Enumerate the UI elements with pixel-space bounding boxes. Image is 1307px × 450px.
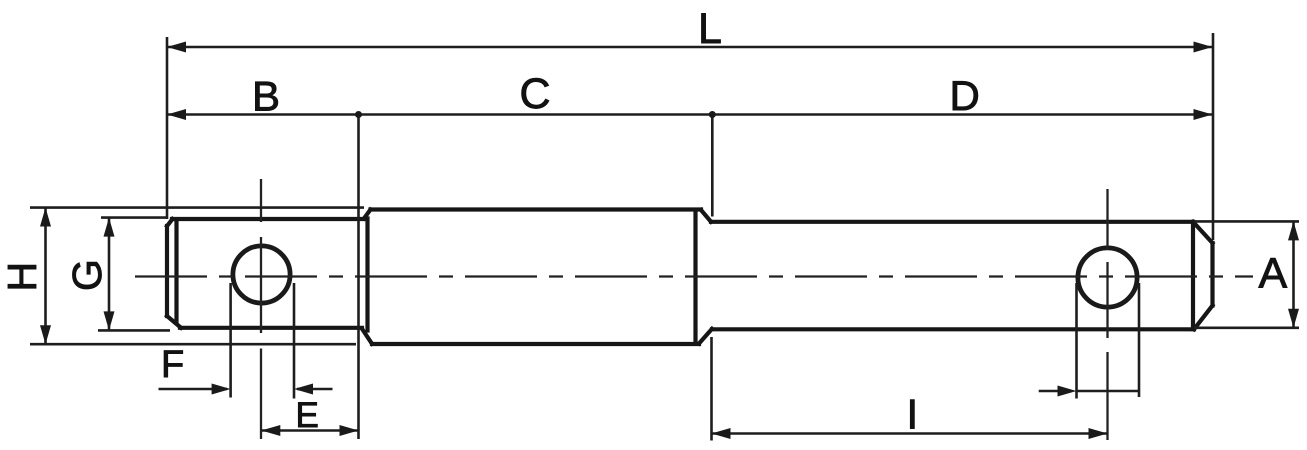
svg-text:D: D — [950, 72, 980, 119]
F left arrow (pointing right at hole left edge) — [212, 384, 231, 395]
pin right end bottom chamfer — [1194, 306, 1213, 330]
svg-text:B: B — [252, 73, 280, 120]
middle section bottom-right chamfer — [699, 329, 712, 344]
extension line left end vertical — [166, 37, 169, 219]
middle section top edge — [371, 207, 702, 211]
H top arrow — [40, 208, 51, 227]
F right arrow (pointing left at hole right edge) — [294, 384, 313, 395]
right hole diameter inner line — [1077, 390, 1139, 393]
middle section bottom-left chamfer — [363, 330, 373, 344]
H dimension line — [44, 208, 47, 345]
main horizontal centerline — [135, 275, 1253, 277]
svg-text:I: I — [907, 391, 919, 438]
I right arrow — [1089, 428, 1108, 439]
I left arrow — [712, 428, 731, 439]
F right line — [297, 388, 333, 391]
G top arrow — [104, 218, 115, 237]
pin right section bottom edge — [712, 327, 1194, 331]
right hole right extension line — [1138, 283, 1141, 397]
middle section bottom edge — [372, 342, 699, 346]
svg-text:A: A — [1259, 250, 1288, 298]
I dimension line — [712, 432, 1108, 435]
right hole left extension line — [1075, 283, 1078, 399]
G top extension line — [101, 216, 167, 219]
B left arrow — [167, 109, 186, 120]
node B-C junction dot — [355, 111, 362, 118]
F dimension left line — [159, 388, 228, 391]
pin left section top edge — [172, 217, 364, 221]
pin left end face — [165, 226, 169, 316]
svg-text:G: G — [64, 259, 110, 291]
E left arrow — [261, 425, 280, 436]
svg-text:L: L — [698, 5, 722, 53]
svg-text:H: H — [0, 262, 45, 292]
right hole — [1078, 248, 1137, 307]
H bottom arrow — [40, 325, 51, 344]
F right extension line (hole right edge) — [293, 283, 296, 399]
extension line C-D boundary vertical — [711, 115, 714, 217]
E right arrow — [340, 425, 359, 436]
extension line B-C boundary vertical — [357, 115, 360, 440]
G bottom arrow — [104, 311, 115, 330]
left hole vertical centerline — [260, 179, 262, 439]
pin left section bottom edge — [180, 326, 362, 330]
A bottom extension line — [1194, 326, 1299, 329]
H bottom extension line — [30, 343, 356, 346]
pin right end chamfer boundary — [1191, 222, 1195, 329]
svg-text:F: F — [161, 344, 184, 386]
extension line right end vertical — [1212, 33, 1215, 240]
middle section top-right chamfer — [701, 210, 711, 222]
pin left end bottom chamfer — [167, 316, 181, 328]
right hole diameter dimension approach line — [1039, 390, 1058, 393]
middle section top-left chamfer — [364, 210, 371, 219]
L dimension line — [167, 46, 1213, 49]
pin right section top edge — [711, 220, 1193, 224]
G dimension line — [108, 218, 111, 331]
pin left end top chamfer — [167, 219, 173, 226]
A bottom arrow — [1288, 309, 1299, 328]
pin right end face — [1210, 243, 1214, 306]
F left extension line (hole left edge) — [229, 283, 232, 398]
H top extension line — [30, 206, 364, 209]
svg-text:E: E — [296, 396, 319, 435]
left hole — [233, 246, 290, 303]
L right arrow — [1194, 42, 1213, 53]
pin right end top chamfer — [1193, 222, 1213, 243]
right hole vertical centerline — [1106, 189, 1108, 440]
A dimension line — [1292, 221, 1295, 327]
left shoulder face — [365, 219, 369, 331]
B C D dimension line — [167, 113, 1213, 116]
D right arrow — [1194, 109, 1213, 120]
A top extension line — [1194, 220, 1299, 223]
right hole diameter arrow (pointing right) — [1058, 386, 1077, 397]
I left extension line — [710, 337, 713, 441]
G bottom extension line — [98, 329, 170, 332]
node C-D junction dot — [709, 111, 716, 118]
A top arrow — [1288, 221, 1299, 240]
E dimension line — [261, 429, 358, 432]
pin left end chamfer boundary — [174, 220, 178, 322]
right shoulder face — [693, 211, 697, 342]
L left arrow — [167, 42, 186, 53]
svg-text:C: C — [520, 70, 551, 118]
